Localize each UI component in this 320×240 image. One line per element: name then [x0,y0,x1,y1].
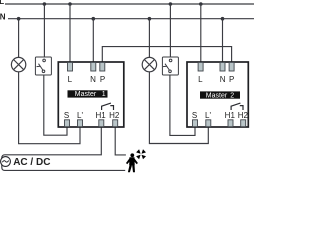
svg-text:P: P [229,75,234,84]
svg-text:N: N [0,12,6,21]
svg-text:L': L' [77,111,83,120]
svg-text:H1: H1 [95,111,106,120]
svg-text:L': L' [205,111,211,120]
svg-text:Master: Master [206,92,228,99]
svg-text:N: N [90,75,96,84]
svg-text:H1: H1 [225,111,236,120]
svg-text:L: L [0,0,4,6]
svg-text:N: N [220,75,226,84]
svg-text:L: L [198,75,203,84]
svg-text:Master: Master [75,91,97,98]
svg-text:2: 2 [230,92,234,99]
svg-text:H2: H2 [238,111,249,120]
svg-text:P: P [100,75,105,84]
svg-text:AC / DC: AC / DC [13,157,50,168]
svg-text:H2: H2 [109,111,120,120]
svg-text:S: S [192,111,197,120]
svg-text:L: L [68,75,73,84]
svg-text:1: 1 [102,91,106,98]
svg-text:S: S [64,111,69,120]
